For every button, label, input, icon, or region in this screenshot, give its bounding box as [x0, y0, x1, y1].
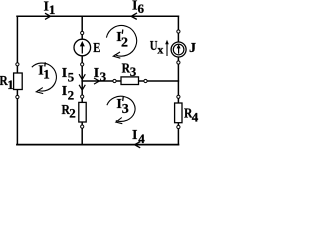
wire top: [17, 15, 178, 17]
svg-text:2: 2: [69, 105, 76, 120]
source E: [74, 39, 91, 56]
svg-text:4: 4: [138, 131, 145, 146]
mesh loop I2': [106, 26, 136, 59]
svg-text:6: 6: [138, 1, 145, 16]
node dot below J: [177, 61, 180, 64]
svg-text:1: 1: [43, 67, 50, 82]
arrow I6: [131, 13, 137, 20]
node dot below E: [81, 63, 84, 66]
svg-text:I: I: [62, 66, 67, 81]
svg-text:3: 3: [122, 102, 129, 117]
wire left: [16, 16, 18, 144]
svg-text:3: 3: [130, 64, 137, 79]
mesh loop I3': [107, 96, 135, 123]
mesh loop I1': [32, 63, 57, 94]
arrow Ux: [165, 40, 169, 56]
svg-text:5: 5: [68, 69, 75, 84]
wire bottom: [17, 144, 178, 146]
svg-text:3: 3: [100, 69, 107, 84]
node dot above R1: [16, 63, 19, 66]
node dot above E: [81, 31, 84, 34]
arrow I1: [45, 13, 50, 19]
svg-text:I: I: [62, 84, 67, 99]
node dot below R1: [16, 95, 19, 98]
svg-text:x: x: [157, 42, 163, 56]
source J (double circle current source): [171, 42, 186, 57]
node dot above J: [177, 30, 180, 33]
svg-text:1: 1: [7, 77, 14, 92]
wire R2 branch: [81, 81, 83, 145]
wire middle: [82, 80, 178, 82]
arrow I4: [135, 142, 141, 148]
arrow I5: [79, 74, 85, 79]
svg-text:2: 2: [68, 87, 75, 102]
node dot left of R3: [113, 79, 116, 82]
svg-text:2: 2: [121, 35, 128, 50]
arrow I2: [79, 85, 85, 90]
wire right: [177, 16, 179, 144]
resistor R2: [79, 102, 86, 122]
node dot right of R3: [144, 79, 147, 82]
node dot below R2: [81, 125, 84, 128]
svg-text:I: I: [132, 128, 137, 143]
resistor R3: [121, 77, 139, 85]
resistor R1: [14, 73, 23, 90]
svg-text:J: J: [189, 41, 196, 56]
svg-text:1: 1: [49, 2, 56, 17]
svg-text:4: 4: [192, 109, 199, 124]
arrow I3: [94, 78, 99, 84]
svg-text:E: E: [93, 41, 100, 56]
wire E branch: [81, 16, 83, 81]
node dot below R4: [177, 125, 180, 128]
node dot above R4: [177, 95, 180, 98]
resistor R4: [175, 103, 182, 123]
node dot above R2: [81, 95, 84, 98]
